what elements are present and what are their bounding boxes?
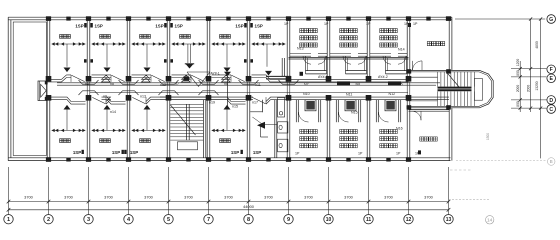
svg-text:1500: 1500 bbox=[486, 133, 490, 140]
svg-text:1P: 1P bbox=[366, 22, 371, 26]
svg-text:1SP: 1SP bbox=[253, 150, 261, 155]
right wall lower bbox=[448, 108, 450, 161]
svg-text:1SP: 1SP bbox=[235, 23, 243, 28]
right wall upper bbox=[448, 17, 450, 70]
svg-text:1SP: 1SP bbox=[130, 150, 138, 155]
svg-text:n7: n7 bbox=[175, 82, 179, 86]
svg-text:13200: 13200 bbox=[535, 81, 539, 90]
right section suite wall bbox=[289, 57, 409, 59]
svg-text:1SP: 1SP bbox=[112, 150, 120, 155]
svg-text:2: 2 bbox=[47, 217, 50, 223]
svg-text:1SP: 1SP bbox=[73, 150, 81, 155]
svg-text:F: F bbox=[550, 67, 553, 73]
svg-text:1SP: 1SP bbox=[231, 150, 239, 155]
office room top band 1 fixtures bbox=[60, 35, 63, 39]
svg-text:3700: 3700 bbox=[224, 195, 233, 200]
svg-text:3700: 3700 bbox=[184, 195, 193, 200]
door thresholds corridor bottom bbox=[79, 91, 99, 95]
svg-text:1200: 1200 bbox=[516, 59, 520, 67]
office room bottom band 2 fixtures bbox=[100, 139, 103, 143]
svg-text:C: C bbox=[549, 107, 553, 113]
outer top wall bbox=[8, 16, 452, 18]
office room top band 5 fixtures bbox=[220, 35, 223, 39]
svg-text:11: 11 bbox=[366, 217, 372, 223]
interior walls top band bbox=[46, 20, 48, 76]
office room top band 6 fixtures bbox=[260, 35, 263, 39]
svg-text:N7: N7 bbox=[304, 82, 309, 86]
right staircase bbox=[407, 70, 494, 107]
svg-text:N14: N14 bbox=[398, 48, 405, 52]
bottom dimension lines bbox=[8, 167, 10, 210]
svg-text:13: 13 bbox=[446, 217, 452, 223]
svg-text:n14: n14 bbox=[110, 110, 116, 114]
svg-text:E: E bbox=[549, 76, 553, 82]
interior walls top band right bbox=[326, 20, 328, 80]
svg-text:AY#-1: AY#-1 bbox=[211, 71, 220, 75]
svg-text:10: 10 bbox=[326, 217, 332, 223]
top right room door bbox=[413, 61, 423, 71]
top right room label bbox=[427, 42, 431, 46]
office room bottom band 1 fixtures bbox=[60, 139, 63, 143]
svg-text:B: B bbox=[550, 159, 553, 164]
corridor bottom wall straight stair bay bbox=[160, 96, 253, 98]
svg-text:1P: 1P bbox=[413, 22, 418, 26]
svg-text:1SP: 1SP bbox=[75, 23, 83, 28]
corridor grid risers bbox=[86, 82, 88, 97]
svg-text:1SP: 1SP bbox=[255, 23, 263, 28]
svg-text:800: 800 bbox=[516, 70, 520, 76]
interior walls bottom band bbox=[46, 100, 48, 158]
columns on top wall bbox=[46, 16, 51, 21]
west entrance door bbox=[38, 81, 47, 101]
svg-text:N5: N5 bbox=[398, 82, 403, 86]
corridor bottom wall zigzag bbox=[47, 100, 289, 104]
columns on corridor walls bbox=[46, 76, 52, 82]
columns on bottom wall bbox=[46, 157, 51, 162]
door thresholds corridor top bbox=[79, 80, 99, 84]
svg-text:n19: n19 bbox=[209, 100, 215, 104]
svg-text:3700: 3700 bbox=[64, 195, 73, 200]
corridor entrance funnel and feeder bbox=[185, 63, 194, 65]
svg-text:7: 7 bbox=[207, 217, 210, 223]
svg-text:1P: 1P bbox=[396, 152, 401, 156]
svg-text:n12: n12 bbox=[160, 83, 166, 87]
svg-text:n11: n11 bbox=[255, 83, 261, 87]
svg-text:n13: n13 bbox=[140, 94, 146, 98]
svg-text:AY#-2: AY#-2 bbox=[378, 75, 388, 79]
svg-text:N11: N11 bbox=[346, 93, 352, 97]
svg-text:N13: N13 bbox=[297, 47, 304, 51]
svg-text:3700: 3700 bbox=[424, 195, 433, 200]
svg-text:n9: n9 bbox=[103, 94, 107, 98]
svg-text:1P: 1P bbox=[358, 152, 363, 156]
outer left wall bbox=[7, 17, 9, 160]
office room top band 3 fixtures bbox=[140, 35, 143, 39]
svg-text:3700: 3700 bbox=[384, 195, 393, 200]
svg-text:n3: n3 bbox=[85, 82, 89, 86]
svg-text:N12: N12 bbox=[389, 92, 396, 96]
grid bubbles bbox=[8, 210, 10, 215]
svg-text:D: D bbox=[549, 98, 553, 104]
svg-text:1SP: 1SP bbox=[175, 23, 183, 28]
corridor top wall right bbox=[289, 78, 409, 80]
office room bottom band 3 fixtures bbox=[140, 139, 143, 143]
office room bottom band 5 fixtures bbox=[220, 139, 223, 143]
svg-text:N15: N15 bbox=[351, 111, 358, 115]
svg-text:3700: 3700 bbox=[104, 195, 113, 200]
svg-text:44000: 44000 bbox=[243, 204, 255, 209]
right section bottom rooms bbox=[295, 100, 297, 123]
svg-text:AY#-2: AY#-2 bbox=[318, 75, 328, 79]
svg-text:n8: n8 bbox=[110, 82, 114, 86]
office room top band 4 fixtures bbox=[180, 35, 183, 39]
svg-text:N10: N10 bbox=[303, 92, 310, 96]
office room top band 2 fixtures bbox=[100, 35, 103, 39]
svg-text:N8: N8 bbox=[356, 82, 361, 86]
svg-text:n6: n6 bbox=[224, 82, 228, 86]
svg-text:3700: 3700 bbox=[344, 195, 353, 200]
svg-text:14: 14 bbox=[487, 218, 493, 224]
svg-text:3700: 3700 bbox=[304, 195, 313, 200]
svg-text:G: G bbox=[549, 17, 553, 23]
toilet room fixtures bbox=[262, 100, 264, 113]
svg-text:9: 9 bbox=[287, 217, 290, 223]
svg-text:N16: N16 bbox=[396, 127, 403, 131]
svg-text:1SP: 1SP bbox=[95, 23, 103, 28]
axis letter bubbles bbox=[547, 15, 556, 24]
middle staircase bbox=[203, 100, 205, 158]
svg-text:2000: 2000 bbox=[516, 85, 520, 93]
svg-text:n17: n17 bbox=[252, 100, 258, 104]
svg-text:800: 800 bbox=[516, 101, 520, 107]
svg-text:1: 1 bbox=[7, 217, 10, 223]
svg-text:1SP: 1SP bbox=[155, 23, 163, 28]
right section suites bbox=[300, 29, 304, 33]
svg-text:8: 8 bbox=[247, 217, 250, 223]
right dimension column bbox=[455, 18, 545, 20]
suite distribution panels bbox=[337, 81, 350, 85]
svg-text:1P: 1P bbox=[295, 152, 300, 156]
svg-text:3700: 3700 bbox=[24, 195, 33, 200]
outer bottom wall bbox=[8, 157, 450, 159]
svg-text:3700: 3700 bbox=[264, 195, 273, 200]
bottom right room bbox=[409, 109, 450, 111]
svg-text:5: 5 bbox=[167, 217, 170, 223]
svg-text:3: 3 bbox=[87, 217, 90, 223]
svg-text:2000: 2000 bbox=[527, 85, 531, 93]
corridor wiring run bbox=[57, 82, 440, 84]
svg-text:4800: 4800 bbox=[535, 41, 539, 49]
corridor bottom wall right bbox=[289, 96, 450, 98]
svg-text:1P: 1P bbox=[324, 22, 329, 26]
corridor top wall zigzag bbox=[47, 75, 289, 79]
left bay inner outline bbox=[13, 22, 46, 156]
bay7 duct and ledge bbox=[281, 58, 283, 76]
svg-text:3700: 3700 bbox=[144, 195, 153, 200]
svg-text:1P: 1P bbox=[284, 22, 289, 26]
svg-text:n15: n15 bbox=[232, 105, 238, 109]
svg-text:12: 12 bbox=[406, 217, 412, 223]
